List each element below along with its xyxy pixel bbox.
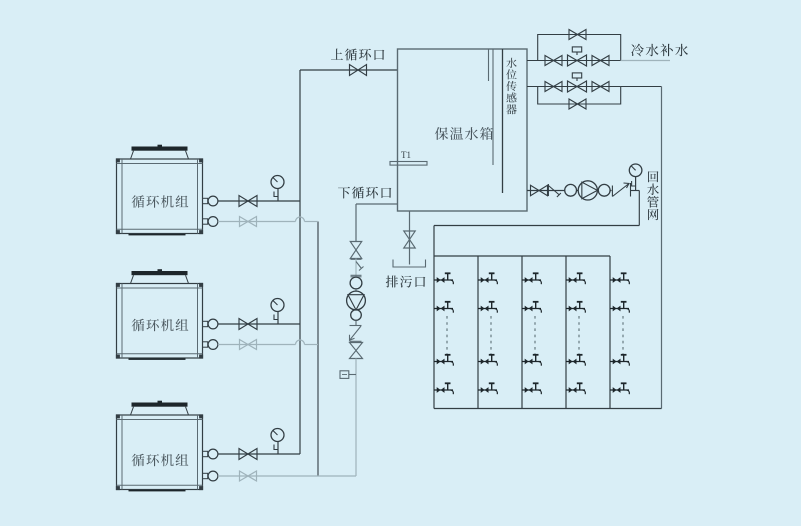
svg-text:T1: T1 [401, 150, 411, 160]
